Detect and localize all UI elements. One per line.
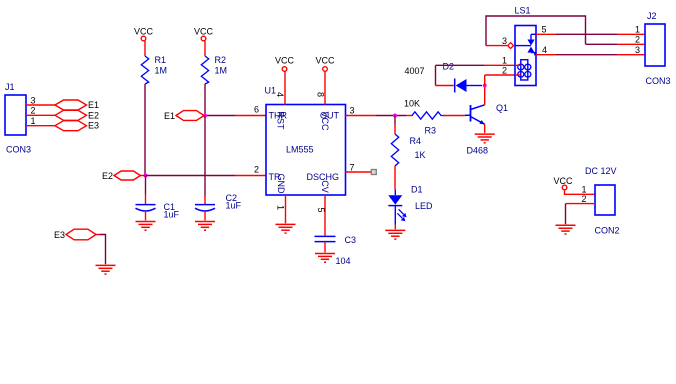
svg-text:E1: E1: [88, 100, 99, 110]
svg-text:R2: R2: [215, 55, 227, 65]
svg-text:D1: D1: [411, 185, 423, 195]
svg-text:CON3: CON3: [6, 145, 31, 155]
svg-text:104: 104: [336, 256, 351, 266]
svg-text:E3: E3: [54, 230, 65, 240]
svg-text:1uF: 1uF: [164, 210, 180, 220]
svg-text:R4: R4: [410, 136, 422, 146]
svg-text:LS1: LS1: [515, 6, 531, 16]
svg-text:1uF: 1uF: [226, 201, 242, 211]
svg-text:R3: R3: [425, 126, 437, 136]
svg-text:3: 3: [635, 45, 640, 55]
svg-text:1K: 1K: [415, 150, 426, 160]
svg-text:Q1: Q1: [496, 103, 508, 113]
svg-text:2: 2: [31, 106, 36, 116]
svg-text:4: 4: [275, 92, 285, 97]
svg-text:1M: 1M: [155, 66, 168, 76]
svg-text:J2: J2: [647, 11, 657, 21]
svg-text:VCC: VCC: [320, 112, 330, 132]
svg-text:E2: E2: [102, 171, 113, 181]
svg-text:D2: D2: [443, 62, 455, 72]
svg-text:U1: U1: [265, 86, 277, 96]
svg-text:1: 1: [635, 25, 640, 35]
svg-text:1M: 1M: [215, 66, 228, 76]
svg-text:3: 3: [31, 95, 36, 105]
svg-text:2: 2: [582, 194, 587, 204]
svg-text:1: 1: [31, 116, 36, 126]
svg-text:2: 2: [254, 165, 259, 175]
svg-text:C3: C3: [345, 235, 357, 245]
svg-text:RST: RST: [276, 112, 286, 131]
svg-text:VCC: VCC: [554, 176, 574, 186]
svg-text:7: 7: [350, 162, 355, 172]
svg-text:5: 5: [316, 208, 326, 213]
svg-text:DC 12V: DC 12V: [585, 166, 617, 176]
svg-text:CON2: CON2: [595, 226, 620, 236]
svg-text:1: 1: [582, 185, 587, 195]
svg-text:1: 1: [502, 56, 507, 66]
svg-text:VCC: VCC: [275, 56, 295, 66]
svg-text:3: 3: [350, 106, 355, 116]
svg-text:E3: E3: [88, 121, 99, 131]
svg-text:CON3: CON3: [646, 76, 671, 86]
svg-text:8: 8: [316, 92, 326, 97]
svg-text:3: 3: [502, 36, 507, 46]
svg-text:VCC: VCC: [315, 56, 335, 66]
svg-text:10K: 10K: [404, 99, 420, 109]
svg-text:4007: 4007: [405, 66, 425, 76]
svg-text:CV: CV: [320, 180, 330, 193]
svg-text:VCC: VCC: [134, 27, 154, 37]
svg-text:LM555: LM555: [286, 145, 314, 155]
svg-text:5: 5: [542, 25, 547, 35]
svg-text:E2: E2: [88, 110, 99, 120]
svg-text:2: 2: [502, 65, 507, 75]
svg-text:GND: GND: [276, 174, 286, 195]
svg-text:E1: E1: [164, 111, 175, 121]
svg-text:2: 2: [635, 35, 640, 45]
svg-text:LED: LED: [415, 201, 433, 211]
svg-text:6: 6: [254, 105, 259, 115]
svg-text:VCC: VCC: [194, 27, 214, 37]
svg-text:R1: R1: [155, 55, 167, 65]
svg-text:D468: D468: [467, 146, 489, 156]
svg-text:1: 1: [276, 205, 286, 210]
svg-text:4: 4: [542, 45, 547, 55]
svg-text:J1: J1: [5, 82, 15, 92]
